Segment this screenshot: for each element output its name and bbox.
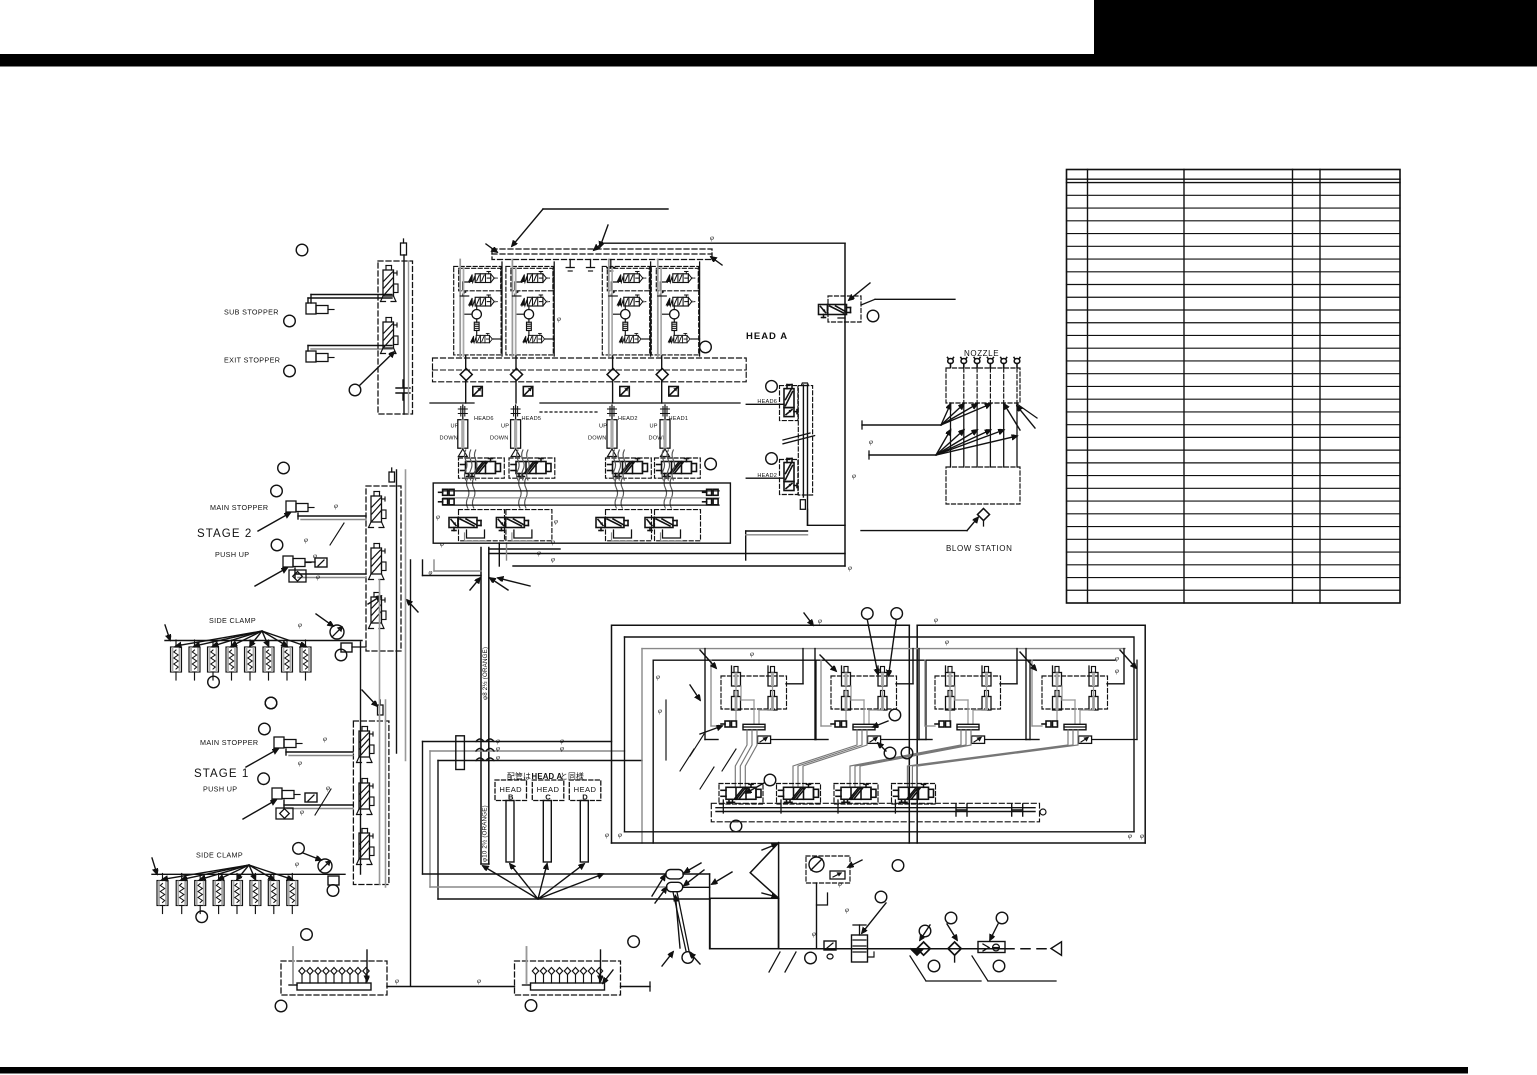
svg-text:φ: φ [560, 745, 564, 753]
svg-text:φ: φ [313, 552, 317, 560]
svg-text:φ: φ [812, 930, 816, 938]
svg-text:配管は: 配管は [507, 771, 531, 781]
svg-text:φ10 2½ (ORANGE): φ10 2½ (ORANGE) [482, 805, 489, 862]
svg-text:φ: φ [323, 735, 327, 743]
svg-text:φ: φ [436, 513, 440, 521]
svg-text:φ: φ [557, 315, 561, 323]
svg-text:φ: φ [1115, 655, 1119, 663]
svg-text:φ: φ [618, 831, 622, 839]
svg-text:φ: φ [316, 573, 320, 581]
svg-text:φ: φ [326, 784, 330, 792]
svg-text:φ: φ [845, 906, 849, 914]
svg-text:DOWN: DOWN [588, 436, 607, 442]
svg-text:φ: φ [869, 438, 873, 446]
svg-text:φ: φ [658, 707, 662, 715]
svg-text:φ: φ [1115, 667, 1119, 675]
svg-text:HEAD2: HEAD2 [618, 416, 638, 422]
svg-text:SIDE CLAMP: SIDE CLAMP [209, 616, 256, 625]
svg-text:φ: φ [496, 754, 500, 762]
svg-text:φ: φ [300, 808, 304, 816]
svg-text:φ: φ [334, 502, 338, 510]
svg-text:φ: φ [848, 564, 852, 572]
svg-text:MAIN STOPPER: MAIN STOPPER [200, 738, 258, 747]
svg-text:φ: φ [852, 472, 856, 480]
svg-text:φ: φ [750, 650, 754, 658]
svg-text:φ: φ [440, 540, 444, 548]
svg-text:φ: φ [295, 860, 299, 868]
svg-text:DOWN: DOWN [440, 436, 459, 442]
svg-text:NOZZLE: NOZZLE [964, 349, 999, 358]
svg-text:φ: φ [477, 977, 481, 985]
svg-text:φ: φ [395, 977, 399, 985]
svg-text:PUSH UP: PUSH UP [215, 550, 249, 559]
svg-text:φ: φ [298, 759, 302, 767]
svg-text:UP: UP [650, 424, 658, 430]
svg-text:φ: φ [496, 745, 500, 753]
svg-text:PUSH UP: PUSH UP [203, 785, 237, 794]
svg-text:φ: φ [818, 617, 822, 625]
svg-text:STAGE 1: STAGE 1 [194, 768, 249, 780]
svg-text:φ: φ [934, 616, 938, 624]
svg-text:φ: φ [945, 638, 949, 646]
svg-text:HEAD1: HEAD1 [669, 416, 689, 422]
svg-text:HEAD A: HEAD A [746, 331, 788, 342]
svg-text:HEAD6: HEAD6 [474, 416, 494, 422]
svg-text:MAIN STOPPER: MAIN STOPPER [210, 503, 268, 512]
svg-text:φ: φ [304, 536, 308, 544]
svg-text:UP: UP [501, 424, 509, 430]
svg-text:HEAD A: HEAD A [532, 772, 563, 781]
svg-text:と同様: と同様 [560, 771, 584, 781]
svg-text:HEAD5: HEAD5 [522, 416, 542, 422]
svg-text:φ: φ [605, 831, 609, 839]
svg-text:STAGE 2: STAGE 2 [197, 528, 252, 540]
svg-text:BLOW STATION: BLOW STATION [946, 544, 1012, 553]
svg-text:φ8 2½ (ORANGE): φ8 2½ (ORANGE) [482, 647, 489, 700]
svg-text:φ: φ [656, 673, 660, 681]
svg-text:φ: φ [537, 549, 541, 557]
svg-text:φ: φ [554, 518, 558, 526]
svg-text:φ: φ [1128, 832, 1132, 840]
svg-text:SIDE CLAMP: SIDE CLAMP [196, 851, 243, 860]
svg-text:φ: φ [298, 621, 302, 629]
svg-text:EXIT STOPPER: EXIT STOPPER [224, 356, 280, 365]
svg-text:DOWN: DOWN [490, 436, 509, 442]
svg-text:φ: φ [429, 569, 433, 577]
svg-text:φ: φ [1140, 832, 1144, 840]
svg-text:φ: φ [710, 234, 714, 242]
svg-text:SUB STOPPER: SUB STOPPER [224, 308, 279, 317]
svg-text:UP: UP [599, 424, 607, 430]
svg-text:φ: φ [838, 880, 842, 888]
svg-text:φ: φ [551, 556, 555, 564]
